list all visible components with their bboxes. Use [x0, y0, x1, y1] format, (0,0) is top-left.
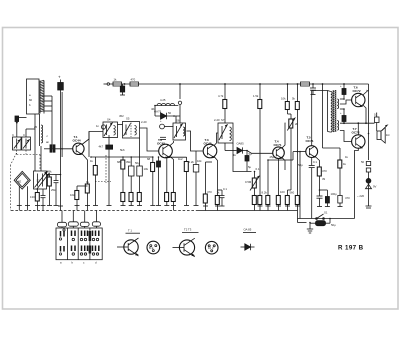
oscillator coil S2 box: [34, 171, 50, 190]
electrolytic C61: [340, 109, 346, 123]
resistor R30: [203, 162, 212, 211]
switch blob: [89, 231, 92, 254]
transistor T7: [352, 135, 365, 148]
svg-text:5μ: 5μ: [249, 152, 253, 156]
wire T5 collector: [312, 91, 328, 146]
wire secondary to T7 base: [340, 131, 352, 142]
svg-text:2.2k: 2.2k: [189, 160, 195, 164]
resistor lower R35: [276, 196, 281, 211]
switch contacts col1: [61, 231, 65, 252]
wire y148 left: [323, 84, 341, 160]
svg-text:10k: 10k: [144, 167, 149, 171]
svg-text:100: 100: [280, 190, 285, 194]
svg-text:T2 T3: T2 T3: [184, 228, 192, 232]
svg-text:10: 10: [374, 113, 378, 117]
transistor T2: [159, 144, 173, 158]
bottom supply wire: [298, 218, 355, 220]
resistor lower R34: [266, 160, 271, 211]
resistor R47: [164, 157, 169, 206]
svg-text:B E: B E: [149, 246, 154, 250]
wire T6 emitter: [363, 105, 366, 123]
svg-text:0.5M: 0.5M: [245, 180, 252, 184]
switch contacts col4: [93, 231, 99, 252]
transistor T6: [352, 93, 365, 106]
coil L1 taps: [43, 96, 53, 149]
resistor R21: [301, 82, 310, 86]
svg-text:1k2: 1k2: [178, 157, 183, 161]
svg-text:R 197 B: R 197 B: [338, 245, 364, 252]
wire jack to speaker: [376, 123, 378, 132]
resistor lower R36: [285, 196, 290, 211]
electrolytic C3: [58, 80, 64, 211]
wire box3 top: [179, 105, 181, 123]
left cluster box C41: [129, 157, 135, 206]
wire detector to T4 base: [247, 151, 273, 154]
antenna terminal: [15, 116, 27, 137]
switch table frame: [56, 228, 102, 260]
pinout T1 label: [126, 232, 141, 234]
svg-text:130: 130: [30, 195, 35, 199]
pinout base view 2: [205, 241, 218, 254]
resistor R45: [165, 157, 189, 206]
svg-text:4.25: 4.25: [160, 98, 166, 102]
IF transformer S5 box: [123, 122, 140, 139]
svg-text:OC45: OC45: [157, 142, 165, 146]
svg-text:470: 470: [207, 190, 212, 194]
svg-text:470: 470: [345, 196, 350, 200]
svg-text:OA85: OA85: [237, 142, 245, 146]
svg-text:+: +: [58, 75, 61, 80]
on-off switch S8: [316, 214, 325, 219]
svg-text:OC71: OC71: [306, 139, 314, 143]
junction dots mid: [51, 98, 369, 223]
pinout T2T3 symbol: [173, 238, 195, 257]
switch tab 1: [58, 211, 67, 229]
wire secondary center tap: [340, 84, 346, 99]
wire box3 to T3: [187, 131, 204, 151]
capacitor C62: [366, 162, 370, 173]
svg-text:470: 470: [322, 169, 327, 173]
capacitor C5: [54, 175, 59, 206]
resistor R14: [295, 102, 299, 110]
IF transformer S7 box: [218, 123, 233, 143]
svg-text:10k: 10k: [70, 193, 75, 197]
svg-text:0.1: 0.1: [223, 187, 227, 191]
driver transformer T core: [333, 90, 336, 132]
svg-text:S6: S6: [176, 119, 180, 123]
svg-text:5k6: 5k6: [120, 148, 125, 152]
wire drop x287: [287, 84, 289, 102]
IF transformer S4 box: [103, 122, 118, 138]
wire T4 emitter drop: [278, 159, 280, 196]
switch tab 2: [68, 211, 78, 229]
svg-text:OA79: OA79: [154, 110, 162, 114]
resistor R5: [75, 186, 88, 211]
svg-text:S1: S1: [324, 211, 328, 215]
electrolytic C1: [120, 84, 125, 95]
wire to T5 base: [293, 151, 306, 153]
svg-text:a5: a5: [34, 125, 38, 129]
wire output node: [340, 122, 375, 124]
capacitor C7 coupling: [44, 145, 55, 152]
wire supply rail: [110, 83, 369, 85]
coil L1 winding: [40, 80, 44, 113]
resistor R12: [258, 100, 262, 109]
coil L2 winding: [40, 114, 43, 146]
svg-text:4k7: 4k7: [99, 145, 104, 149]
diode D1: [155, 106, 180, 124]
ground bus solid: [196, 210, 298, 212]
potentiometer P2: [287, 110, 295, 196]
resistor R7 emitter: [85, 184, 90, 211]
svg-text:1.5k: 1.5k: [253, 94, 259, 98]
junction circle top: [178, 101, 181, 104]
svg-text:OC45: OC45: [204, 142, 212, 146]
svg-text:50μ: 50μ: [298, 163, 303, 167]
svg-text:50μ: 50μ: [135, 161, 140, 165]
svg-text:9V: 9V: [373, 185, 377, 189]
battery B1: [366, 172, 372, 208]
resistor lower R37: [295, 196, 300, 211]
resistor lower R32: [258, 196, 263, 211]
svg-text:1Ω: 1Ω: [386, 133, 390, 137]
wire osc to components: [47, 174, 61, 176]
left cluster resistor R43: [150, 157, 155, 206]
svg-text:OC72: OC72: [352, 131, 360, 135]
diode OA85 legend: [241, 233, 257, 251]
loudspeaker: [377, 125, 387, 143]
svg-text:560: 560: [290, 191, 295, 195]
variable capacitor C2b: [22, 129, 35, 150]
wire box4 right leg: [233, 143, 252, 172]
junction dots on rail: [124, 83, 345, 85]
svg-text:an: an: [46, 140, 50, 144]
wire T6 collector: [363, 90, 369, 95]
wire drop x180: [179, 84, 181, 99]
svg-text:10k: 10k: [281, 97, 286, 101]
svg-text:68k: 68k: [117, 160, 122, 164]
wire box2 to T2 base: [140, 128, 159, 151]
pinout T1 symbol: [117, 238, 139, 256]
svg-text:39k: 39k: [126, 160, 131, 164]
wire drop x225: [224, 84, 226, 100]
transistor T4: [273, 147, 285, 159]
wire left bend: [298, 211, 307, 223]
pinout base view 1: [147, 241, 160, 254]
svg-text:39: 39: [322, 177, 326, 181]
ground symbol: [307, 223, 313, 234]
wire T7 emitter: [355, 148, 359, 218]
svg-text:470: 470: [131, 78, 136, 82]
wire T2 collector: [170, 141, 174, 146]
wire secondary to T6 base: [340, 100, 352, 104]
wire T1 emitter: [82, 154, 88, 184]
resistor R2: [130, 82, 139, 86]
wire T4 to driver coupling: [268, 152, 293, 160]
svg-text:0.1: 0.1: [256, 167, 260, 171]
supply terminal: [104, 83, 110, 85]
svg-text:100μ: 100μ: [331, 192, 338, 196]
svg-text:OC72: OC72: [353, 89, 361, 93]
resistor lower R33: [252, 196, 256, 211]
svg-text:AE: AE: [18, 180, 22, 184]
electrolytic C9: [160, 124, 174, 129]
resistor R52: [338, 160, 343, 207]
left cluster electrolytic C43: [156, 157, 161, 206]
volume potentiometer P1: [250, 172, 259, 196]
filter electrolytic C63: [310, 219, 330, 226]
wire T7 collector: [357, 123, 359, 135]
capacitor C52: [309, 158, 315, 219]
junction dots output: [343, 122, 367, 124]
tuning gang dashed link: [11, 150, 41, 211]
svg-text:S7: S7: [221, 118, 225, 122]
svg-text:S5: S5: [126, 117, 130, 121]
svg-text:5μ: 5μ: [248, 165, 252, 169]
junction circle box1: [101, 125, 105, 129]
capacitor C4: [41, 189, 46, 211]
capacitor C21: [310, 84, 316, 95]
diode D2 detector: [225, 143, 247, 154]
svg-text:12 3: 12 3: [208, 246, 214, 250]
resistor R11: [223, 100, 227, 109]
svg-text:T 1: T 1: [128, 229, 132, 233]
right supply bus: [368, 84, 370, 160]
wire T3 collector: [214, 133, 218, 145]
ferrite rod coil former L1: [27, 79, 40, 114]
svg-text:2-20: 2-20: [214, 118, 220, 122]
wire L2 to osc: [35, 114, 41, 171]
loop antenna leads: [17, 186, 30, 210]
svg-text:50μ: 50μ: [331, 223, 336, 227]
resistor lower R31: [215, 196, 220, 211]
svg-text:OC44: OC44: [73, 139, 81, 143]
variable capacitor C2a: [13, 137, 22, 150]
svg-text:~ 220: ~ 220: [357, 194, 365, 198]
svg-text:452: 452: [119, 114, 124, 118]
svg-text:60: 60: [29, 98, 33, 102]
left cluster resistor R41: [106, 135, 113, 206]
wire drop x260: [259, 84, 261, 100]
svg-text:4.7k: 4.7k: [218, 94, 224, 98]
svg-text:39k: 39k: [47, 170, 52, 174]
svg-text:0.1: 0.1: [313, 160, 317, 164]
resistor R51: [317, 167, 323, 207]
svg-text:1n: 1n: [96, 124, 100, 128]
wire T2 emitter: [170, 156, 174, 192]
resistor R4: [47, 175, 52, 206]
transistor T1: [73, 143, 84, 155]
svg-text:2-20: 2-20: [141, 120, 147, 124]
electrolytic C12: [245, 151, 249, 172]
capacitor C31: [218, 190, 225, 206]
switch contacts col2: [72, 231, 76, 252]
transistor T5: [306, 146, 318, 158]
IF transformer S6 box: [173, 123, 186, 140]
svg-text:S4: S4: [107, 118, 111, 122]
svg-text:8.2k: 8.2k: [262, 191, 268, 195]
wire volume feed: [299, 152, 301, 219]
switch contacts col3: [82, 231, 88, 252]
svg-text:OA 85: OA 85: [244, 228, 252, 232]
svg-text:50: 50: [168, 111, 172, 115]
transformer secondary lower: [337, 121, 338, 131]
ground bus dashed: [11, 210, 196, 212]
resistor R13: [285, 102, 289, 110]
left cluster resistor R42: [121, 157, 126, 206]
loop antenna diamond: [14, 171, 30, 189]
switch tab 4: [92, 211, 100, 229]
wire T1 base: [55, 148, 73, 150]
electrolytic C51: [320, 190, 330, 207]
svg-text:OC71: OC71: [274, 143, 282, 147]
wire T3 emitter: [214, 157, 217, 196]
left cluster box C42: [137, 138, 143, 206]
resistor under T2 R44: [171, 193, 176, 211]
resistor R1: [113, 82, 122, 86]
wire T4 emitter: [282, 157, 285, 170]
dashed switch line: [95, 155, 111, 183]
wire box1-box2: [118, 124, 123, 126]
svg-text:50: 50: [361, 160, 365, 164]
wire T1 collector: [82, 132, 103, 158]
box R46: [193, 151, 199, 206]
earphone jack: [375, 113, 380, 123]
svg-text:25k: 25k: [51, 188, 56, 192]
svg-text:S2: S2: [37, 179, 41, 183]
svg-text:C: C: [23, 133, 25, 137]
svg-text:68: 68: [147, 157, 151, 161]
resistor R3: [35, 189, 40, 211]
pinout T2T3 label: [182, 232, 199, 234]
wire T5 emitter: [315, 157, 319, 168]
svg-text:10k: 10k: [197, 159, 202, 163]
svg-text:C: C: [12, 133, 14, 137]
transistor T3: [203, 144, 217, 158]
transformer primary winding: [328, 91, 333, 133]
transformer secondary upper: [337, 99, 338, 109]
wire T4 collector: [282, 123, 286, 148]
wire drop x297: [297, 84, 299, 102]
wire AF line: [91, 156, 153, 158]
resistor R6: [93, 157, 98, 206]
capacitor C10: [160, 137, 166, 139]
svg-text:25μ: 25μ: [270, 155, 275, 159]
switch tab 3: [80, 211, 89, 229]
coil L3: [155, 104, 178, 106]
